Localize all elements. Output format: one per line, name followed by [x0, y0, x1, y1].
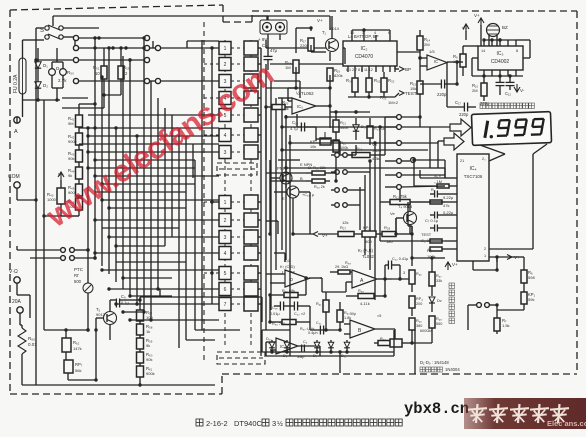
svg-text:R₃₃: R₃₃ — [380, 95, 387, 100]
junction — [418, 115, 421, 118]
switch S pole1 contact a — [45, 26, 49, 30]
wire — [104, 94, 121, 96]
border notch vertical 2 — [251, 11, 253, 22]
resistor R 598 — [521, 270, 527, 283]
resistor R11 75k — [390, 200, 410, 205]
label BH53 LCD display (pseudo CJK) — [480, 103, 486, 109]
svg-text:3: 3 — [224, 150, 227, 156]
wire chain link — [78, 179, 80, 184]
wire — [309, 322, 311, 330]
block arrow 2 to display — [444, 133, 464, 150]
wire mesh vertical — [108, 48, 110, 274]
junction — [482, 38, 485, 41]
contact circle — [70, 256, 75, 261]
wire IC4 pin — [445, 240, 457, 242]
wire — [335, 152, 337, 160]
wire — [329, 52, 331, 61]
wire — [274, 252, 285, 254]
IC U3 CD4002 — [478, 46, 523, 70]
svg-text:9k: 9k — [146, 343, 150, 348]
wire — [376, 233, 382, 235]
svg-text:R₃₈: R₃₈ — [345, 261, 351, 265]
wire — [265, 107, 267, 160]
wire — [287, 88, 289, 101]
wire — [330, 111, 336, 113]
wire row y48 — [79, 47, 144, 49]
wire — [331, 171, 334, 173]
svg-text:D₉: D₉ — [283, 354, 288, 358]
junction — [455, 82, 458, 85]
wire — [315, 127, 317, 139]
wire — [430, 167, 438, 169]
contact circle — [155, 45, 160, 50]
wire chain link — [139, 321, 141, 324]
wire IC3 right — [523, 57, 530, 59]
wire mesh row — [62, 107, 104, 109]
resistor R5 100k — [430, 247, 442, 251]
wire top link — [336, 111, 370, 113]
vertical cjk label char — [449, 283, 455, 289]
svg-text:D₁₀: D₁₀ — [266, 337, 272, 341]
junction — [128, 58, 131, 61]
svg-text:Ve: Ve — [390, 211, 395, 216]
wire — [298, 305, 310, 307]
switch contact box K3' — [244, 145, 258, 159]
wire — [419, 94, 421, 101]
wire — [269, 295, 271, 322]
wire — [456, 62, 458, 84]
wire — [383, 72, 385, 78]
wire mesh vertical — [157, 98, 159, 289]
contact circle low — [335, 203, 340, 208]
contact circle low — [335, 188, 340, 193]
junction — [354, 110, 357, 113]
diode D1 — [35, 62, 41, 68]
svg-text:PTC: PTC — [74, 267, 84, 272]
wire — [325, 180, 330, 182]
wire switch out — [258, 97, 261, 99]
contact circle low — [335, 170, 340, 175]
wire opamp out — [447, 61, 460, 63]
wire chain link — [78, 145, 80, 150]
wire IC2 pin top — [389, 35, 391, 41]
wire switch out — [258, 288, 261, 290]
resistor R26 2k — [312, 179, 325, 183]
wire — [287, 98, 289, 101]
svg-text:9-22μ: 9-22μ — [443, 195, 454, 200]
wire row y48 to switch — [161, 47, 219, 49]
wire — [65, 330, 67, 338]
wire IC2 pin top — [351, 35, 353, 41]
wire rail — [412, 257, 432, 259]
svg-text:8: 8 — [516, 49, 518, 53]
junction — [102, 93, 105, 96]
wire — [37, 48, 39, 55]
wire encl left — [261, 330, 263, 352]
wire — [339, 302, 341, 310]
svg-text:R₄₆: R₄₆ — [416, 319, 422, 323]
resistor R41 8k2 — [323, 300, 329, 312]
svg-text:C₂₂ 0.41μ: C₂₂ 0.41μ — [392, 257, 408, 261]
wire IC3 pin bottom — [515, 70, 517, 76]
wire — [438, 193, 445, 195]
wire funnel bottom — [489, 248, 533, 250]
wire — [329, 16, 331, 30]
wire — [483, 76, 485, 83]
capacitor C21 — [319, 326, 321, 335]
wire switch out — [258, 151, 261, 153]
svg-text:COM: COM — [8, 174, 20, 180]
transistor T2 PNP — [280, 172, 292, 184]
wire switch up — [52, 16, 54, 26]
wire COM stub — [16, 188, 18, 200]
wire switch left stub — [36, 27, 44, 29]
svg-text:V·Ω: V·Ω — [9, 269, 18, 275]
wire — [523, 257, 525, 270]
wire — [210, 201, 219, 203]
potentiometer RP1 10k — [320, 138, 331, 145]
switch linkage dashed — [203, 22, 205, 362]
TEST output arrow — [399, 91, 404, 96]
capacitor C20 — [293, 302, 295, 311]
wire mesh row — [79, 143, 219, 145]
resistor R40 1.8k — [337, 310, 343, 322]
contact circle — [485, 303, 490, 308]
wire mesh row — [88, 167, 195, 169]
switch linkage dashed row — [231, 80, 245, 82]
svg-text:R₆₆: R₆₆ — [28, 336, 35, 341]
junction — [329, 350, 332, 353]
wire — [315, 139, 317, 141]
svg-text:TL062: TL062 — [362, 254, 375, 259]
wire — [299, 81, 301, 98]
wire terminal A stub — [16, 117, 18, 123]
wire — [271, 348, 273, 352]
terminal 20A — [17, 307, 23, 313]
wire — [420, 83, 441, 85]
wire — [296, 27, 311, 29]
svg-text:4: 4 — [224, 251, 227, 257]
wire long row 150 — [282, 149, 428, 151]
switch linkage dashed row — [204, 47, 219, 49]
switch linkage dashed row — [204, 219, 219, 221]
wire long bus3 — [289, 135, 291, 356]
junction — [128, 318, 131, 321]
wire — [274, 191, 287, 193]
border notch vertical — [222, 5, 224, 22]
wire — [270, 341, 276, 343]
wire — [411, 226, 413, 234]
svg-text:R₄₈: R₄₈ — [436, 317, 442, 321]
junction — [34, 198, 37, 201]
wire — [274, 305, 276, 307]
wire — [271, 340, 273, 342]
contact circle mid — [397, 173, 402, 178]
wire — [285, 184, 287, 188]
switch contact box K1' — [244, 195, 258, 209]
svg-text:3: 3 — [224, 235, 227, 241]
wire — [270, 321, 282, 323]
svg-text:56k: 56k — [75, 368, 81, 373]
wire — [354, 72, 356, 78]
border bottom-left segment — [10, 393, 222, 395]
wire — [17, 294, 30, 296]
border bottom-right segment — [222, 373, 577, 375]
svg-text:KP₂: KP₂ — [363, 225, 370, 230]
wire — [306, 180, 312, 182]
wire IC3 pin bottom — [483, 70, 485, 76]
wire mesh row — [109, 207, 186, 209]
svg-text:500: 500 — [365, 239, 372, 244]
junction — [93, 251, 96, 254]
wire — [266, 172, 306, 174]
svg-text:47μ: 47μ — [270, 48, 278, 53]
wire feeder from mesh — [194, 160, 196, 330]
wire feeder2 — [185, 202, 187, 340]
wire — [471, 58, 473, 76]
switch contact box K6 — [219, 283, 231, 296]
svg-text:14: 14 — [481, 49, 485, 53]
wire — [389, 30, 391, 35]
border left — [9, 10, 11, 394]
junction — [334, 110, 337, 113]
wire — [321, 278, 323, 292]
svg-text:K₇ (C,D): K₇ (C,D) — [280, 264, 295, 269]
wire mesh row — [116, 245, 165, 247]
wire — [139, 384, 141, 386]
svg-text:FU 0.2A: FU 0.2A — [13, 74, 19, 93]
wire — [103, 48, 105, 66]
BP output arrow — [399, 67, 404, 72]
wire — [462, 46, 464, 54]
junction — [119, 46, 122, 49]
wire — [463, 45, 478, 47]
wire top rail to battery — [53, 15, 268, 17]
op-amp IC6a LM358 — [285, 270, 309, 287]
wire mesh row — [88, 151, 219, 153]
wire chain bottom — [78, 210, 80, 216]
wire — [306, 172, 312, 174]
switch linkage dashed row — [204, 201, 219, 203]
junction — [309, 26, 312, 29]
junction — [284, 166, 287, 169]
wire mesh vertical — [171, 115, 173, 237]
svg-text:R₅₀: R₅₀ — [67, 70, 74, 75]
wire chain link — [78, 127, 80, 133]
junction — [100, 268, 103, 271]
wire — [150, 80, 155, 82]
wire IC4 to left — [420, 177, 445, 179]
wire mesh row — [116, 261, 186, 263]
caption cjk run (pseudo) — [387, 419, 394, 426]
wire — [296, 87, 330, 89]
contact circle — [61, 256, 66, 261]
svg-text:9k: 9k — [68, 173, 72, 178]
svg-text:2M: 2M — [424, 42, 430, 47]
wire mesh row — [95, 191, 186, 193]
svg-text:4: 4 — [374, 31, 376, 35]
junction — [324, 328, 327, 331]
wire — [374, 342, 378, 344]
svg-text:V-: V- — [520, 88, 525, 93]
wire switch out — [258, 252, 261, 254]
wire — [159, 289, 161, 297]
resistor R24 4.3k — [352, 153, 370, 158]
wire mesh row — [79, 127, 219, 129]
wire feeder — [384, 117, 386, 145]
wire feeder3 — [369, 161, 371, 270]
wire — [346, 348, 348, 352]
svg-text:8 1 2 7 8 5 11 12: 8 1 2 7 8 5 11 12 — [346, 68, 373, 72]
wire — [465, 31, 467, 40]
wire PTC bottom — [87, 293, 89, 330]
wire — [384, 145, 386, 155]
border top-left segment — [10, 5, 223, 10]
wire — [262, 329, 290, 331]
svg-text:R₅₂: R₅₂ — [93, 65, 100, 70]
wire — [75, 249, 88, 251]
switch S pole2 lever — [48, 34, 60, 39]
wire — [457, 61, 460, 63]
svg-text:220p: 220p — [480, 101, 490, 106]
wire — [325, 172, 335, 174]
wire — [295, 67, 297, 88]
switch linkage dashed row — [231, 97, 245, 99]
wire — [395, 93, 399, 97]
wire — [133, 299, 140, 301]
wire — [411, 226, 413, 234]
wire mesh row — [116, 303, 219, 305]
junction — [264, 105, 267, 108]
svg-text:4-11k: 4-11k — [360, 301, 370, 306]
svg-text:V+: V+ — [317, 18, 323, 23]
wire — [419, 58, 421, 66]
junction — [285, 350, 288, 353]
vertical cjk label char — [449, 290, 455, 296]
wire — [412, 342, 432, 344]
wire — [355, 145, 357, 155]
wire chain to rail — [44, 215, 79, 217]
resistor R53 2 — [118, 66, 124, 79]
wire — [356, 189, 365, 191]
wire — [344, 48, 346, 64]
wire display funnel right — [533, 144, 547, 154]
wire to contact — [385, 142, 396, 144]
battery 9V terminal + — [263, 23, 272, 32]
wire — [310, 329, 340, 331]
switch linkage dashed row — [231, 134, 245, 136]
svg-text:A: A — [14, 129, 18, 135]
wire — [447, 106, 464, 108]
junction — [128, 294, 131, 297]
wire out B — [375, 328, 395, 330]
potentiometer RP3 — [378, 341, 390, 346]
wire — [267, 34, 269, 40]
svg-text:1.5k: 1.5k — [502, 323, 510, 328]
wire IC4 pin — [445, 177, 457, 179]
wire — [299, 191, 310, 193]
wire — [348, 204, 356, 206]
svg-text:220k: 220k — [300, 43, 309, 48]
svg-text:R₃₉: R₃₉ — [358, 289, 364, 293]
junction — [107, 206, 110, 209]
potentiometer RP2 500 — [362, 231, 376, 237]
svg-text:IC₂: IC₂ — [361, 46, 368, 52]
wire chain link — [139, 335, 141, 338]
svg-text:C₇ 0.1μ: C₇ 0.1μ — [425, 218, 439, 223]
potentiometer RP7 56k — [64, 360, 73, 373]
diode D — [269, 342, 275, 348]
wire bus left of col1 b — [211, 48, 213, 304]
border right — [576, 11, 578, 374]
wire — [368, 92, 370, 97]
wire mesh row — [123, 311, 144, 313]
wire mesh vertical — [150, 81, 152, 320]
svg-text:Rt': Rt' — [74, 273, 79, 278]
stamp calligraphy (pseudo CJK) — [468, 408, 487, 410]
switch linkage dashed col1 — [224, 40, 226, 346]
wire — [430, 193, 434, 195]
wire — [62, 75, 64, 88]
resistor bottom chain 900k — [137, 366, 144, 377]
terminal COM — [14, 182, 20, 188]
diode D12 — [429, 297, 435, 303]
transistor T3 — [287, 186, 299, 198]
wire — [30, 257, 60, 259]
wire IC4 bottom — [472, 261, 474, 270]
contact circle mid — [411, 158, 416, 163]
switch contact box K3' — [244, 230, 258, 244]
svg-text:180: 180 — [386, 239, 393, 244]
wire — [344, 323, 350, 325]
wire — [460, 61, 463, 63]
wire mesh vertical — [192, 144, 194, 178]
wire — [266, 220, 278, 222]
wire — [472, 57, 478, 59]
wire — [68, 379, 96, 381]
resistor R48 560 — [429, 316, 435, 328]
svg-text:½: ½ — [277, 420, 283, 428]
svg-text:B: B — [300, 176, 303, 181]
wire — [139, 297, 141, 303]
svg-text:220p: 220p — [437, 92, 447, 97]
svg-text:1N4004: 1N4004 — [445, 367, 460, 372]
wire bottom of input protection — [23, 99, 61, 101]
wire mesh row — [95, 175, 219, 177]
border notch horizontal — [223, 21, 252, 23]
junction — [270, 350, 273, 353]
wire feedback — [329, 88, 331, 106]
wire to contact — [385, 160, 396, 162]
switch linkage dashed row — [204, 114, 219, 116]
wire — [75, 257, 95, 259]
svg-text:S: S — [40, 28, 44, 34]
wire — [411, 258, 413, 266]
wire IC3 pin top — [491, 40, 493, 46]
wire — [411, 284, 413, 292]
wire feeder4 — [364, 175, 366, 255]
wire — [293, 233, 313, 235]
junction — [354, 110, 357, 113]
V+ arrow up — [58, 172, 64, 177]
wire row48 right — [266, 47, 330, 49]
resistor R25 22k — [312, 171, 325, 175]
wire battery stub — [266, 16, 268, 20]
svg-text:600Ωta: 600Ωta — [420, 329, 433, 333]
wire — [496, 257, 498, 262]
wire — [60, 204, 62, 216]
wire — [468, 106, 476, 108]
